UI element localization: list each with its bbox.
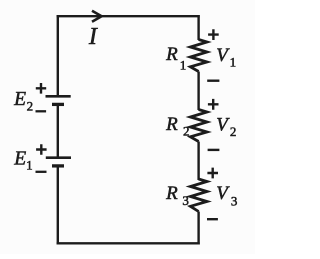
wire right third <box>197 142 199 181</box>
wire right second <box>197 72 199 111</box>
polarity + E2 <box>36 83 46 94</box>
label E1 <box>13 149 32 173</box>
polarity + V3 <box>207 168 218 179</box>
label V2 <box>216 115 236 139</box>
svg-text:3: 3 <box>182 193 189 208</box>
battery E2 <box>46 96 71 104</box>
polarity + E1 <box>36 144 47 155</box>
label R2 <box>165 114 189 139</box>
svg-text:2: 2 <box>230 124 237 139</box>
svg-text:2: 2 <box>27 99 33 114</box>
wire left upper <box>57 15 59 95</box>
current arrow <box>92 11 102 22</box>
resistor R1 <box>190 40 207 72</box>
wire top <box>57 15 200 17</box>
svg-text:3: 3 <box>231 193 238 208</box>
svg-text:R: R <box>165 114 178 135</box>
wire left middle <box>57 106 59 157</box>
svg-text:1: 1 <box>230 55 237 70</box>
label E2 <box>13 89 33 114</box>
label V3 <box>216 183 237 208</box>
polarity - E2 <box>36 110 47 112</box>
svg-text:1: 1 <box>180 57 187 72</box>
svg-text:1: 1 <box>26 157 32 172</box>
label R3 <box>165 183 189 208</box>
label R1 <box>165 44 186 72</box>
svg-text:I: I <box>88 24 98 50</box>
polarity + V1 <box>208 29 219 40</box>
resistor R3 <box>190 179 207 212</box>
polarity - V1 <box>207 79 219 81</box>
polarity - V2 <box>208 149 220 151</box>
wire right lower <box>197 212 199 245</box>
resistor R2 <box>190 110 207 142</box>
svg-text:E: E <box>13 149 26 170</box>
polarity - V3 <box>207 218 218 220</box>
svg-text:2: 2 <box>183 124 190 139</box>
polarity - E1 <box>36 171 47 173</box>
svg-text:R: R <box>165 44 178 65</box>
polarity + V2 <box>208 99 219 110</box>
battery E1 <box>46 158 71 166</box>
wire bottom <box>57 242 200 244</box>
wire right upper <box>197 15 199 40</box>
svg-text:R: R <box>165 183 178 204</box>
wire left lower <box>57 167 59 245</box>
svg-text:E: E <box>13 89 26 110</box>
label V1 <box>216 45 236 70</box>
